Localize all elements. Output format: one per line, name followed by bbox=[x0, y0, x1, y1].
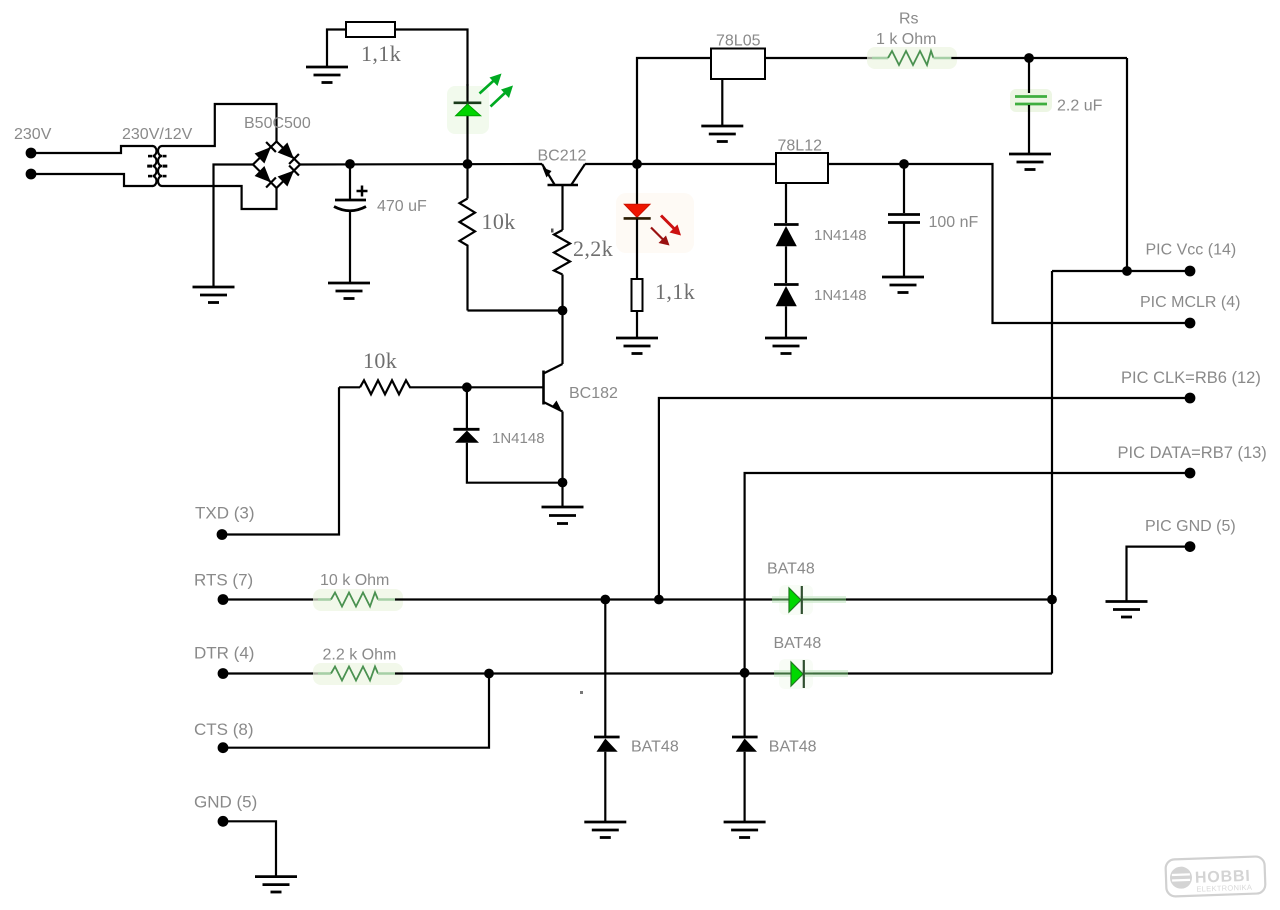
wire secondary top to bridge AC1 bbox=[162, 104, 277, 146]
wire 10k bottom to 2.2k bottom bbox=[468, 309, 563, 311]
regulator U1 78L05 box bbox=[711, 49, 765, 80]
transformer TR1 primary winding bbox=[147, 146, 156, 186]
node junction RTS/BAT48 bbox=[600, 595, 610, 605]
svg-text:PIC GND (5): PIC GND (5) bbox=[1145, 518, 1236, 535]
resistor R6 value label bbox=[320, 572, 389, 589]
node junction DTR/CTS bbox=[484, 669, 494, 679]
resistor R2 value 10k bbox=[482, 209, 516, 234]
resistor R4 10k horizontal (TXD) bbox=[339, 380, 412, 394]
LED green glow bbox=[447, 86, 489, 134]
svg-text:10k: 10k bbox=[482, 209, 516, 234]
svg-text:Rs: Rs bbox=[899, 11, 919, 28]
bridge diode bottom-left bbox=[255, 166, 276, 188]
resistor R6 10 k Ohm green bbox=[318, 593, 395, 607]
transistor Q2 BC182 bbox=[544, 364, 563, 483]
node junction 2.2uF bbox=[1024, 53, 1034, 63]
svg-text:78L12: 78L12 bbox=[778, 138, 823, 155]
resistor Rs value label bbox=[876, 31, 936, 48]
svg-text:2.2 uF: 2.2 uF bbox=[1057, 98, 1103, 115]
ground below D9 bbox=[724, 822, 766, 838]
wire node to 78L05 input bbox=[637, 58, 711, 164]
ground below 470uF bbox=[328, 283, 370, 299]
node junction 100nF bbox=[899, 159, 909, 169]
svg-text:PIC DATA=RB7 (13): PIC DATA=RB7 (13) bbox=[1118, 444, 1267, 462]
node junction DTR/DATA bbox=[740, 668, 750, 678]
svg-text:230V/12V: 230V/12V bbox=[122, 126, 193, 143]
capacitor C3 100 nF bbox=[888, 164, 920, 276]
LED D3 light arrows red bbox=[651, 216, 681, 246]
node RTS label bbox=[194, 571, 253, 590]
transistor Q1 BC212 label bbox=[538, 148, 587, 165]
wire TXD to resistor bbox=[224, 387, 339, 534]
ground below 78L05 bbox=[701, 126, 743, 142]
diode D2 1N4148 at base bbox=[453, 387, 562, 482]
logo hobbielektronika badge bbox=[1165, 856, 1265, 896]
wire Vcc vertical to RTS/DTR bbox=[1051, 271, 1053, 674]
resistor R2 10k vertical bbox=[460, 164, 476, 311]
diode D7 BAT48 black vertical bbox=[594, 600, 620, 822]
resistor Rs label bbox=[899, 11, 919, 28]
terminal 230V line 1 bbox=[26, 148, 37, 159]
wire PIC CLK line to RTS bbox=[659, 398, 1186, 600]
wire RTS line left bbox=[225, 598, 318, 600]
diode D5 label 1N4148 bbox=[814, 287, 867, 304]
diode D4 1N4148 bbox=[774, 225, 799, 284]
diode D9 label BAT48 bbox=[769, 739, 817, 756]
svg-text:PIC Vcc (14): PIC Vcc (14) bbox=[1146, 242, 1237, 259]
svg-text:B50C500: B50C500 bbox=[244, 115, 311, 132]
node DTR label bbox=[194, 644, 254, 663]
LED D1 green bbox=[454, 84, 482, 164]
regulator U2 78L12 label bbox=[778, 138, 823, 155]
svg-text:BAT48: BAT48 bbox=[767, 561, 815, 578]
node 230V label bbox=[14, 126, 52, 143]
diode D6 BAT48 green glow bbox=[779, 585, 813, 615]
terminal GND (5) bbox=[218, 816, 229, 827]
wire CTS to DTR line bbox=[225, 674, 489, 748]
svg-text:2.2 k Ohm: 2.2 k Ohm bbox=[323, 647, 397, 664]
resistor R5 value 1,1k bbox=[655, 279, 695, 304]
wire GND to ground bbox=[225, 821, 276, 875]
bridge diode top-right bbox=[278, 143, 299, 165]
node junction RTS/CLK bbox=[654, 595, 664, 605]
bridge rectifier B50C500 label bbox=[244, 115, 311, 132]
ground below BC182 bbox=[542, 507, 584, 524]
node junction Vcc line bbox=[1122, 266, 1132, 276]
resistor R7 2.2 k Ohm green bbox=[318, 667, 395, 681]
wire PIC DATA line to DTR bbox=[745, 473, 1186, 673]
terminal RTS (7) bbox=[218, 594, 229, 605]
svg-text:1 k Ohm: 1 k Ohm bbox=[876, 31, 936, 48]
regulator U2 78L12 box bbox=[776, 153, 828, 183]
capacitor C2 value label bbox=[1057, 98, 1103, 115]
node PIC MCLR label bbox=[1140, 294, 1240, 311]
diode D4 label 1N4148 bbox=[814, 227, 867, 244]
svg-text:TXD (3): TXD (3) bbox=[195, 504, 255, 523]
resistor R3 2,2k vertical bbox=[554, 230, 570, 311]
resistor R7 glow bbox=[313, 663, 403, 685]
svg-text:1,1k: 1,1k bbox=[655, 279, 695, 304]
ground below R1 bbox=[306, 67, 348, 83]
wire 78L12 stub to diodes bbox=[785, 183, 787, 223]
svg-text:78L05: 78L05 bbox=[716, 33, 761, 50]
wire RTS line right bbox=[395, 598, 1052, 600]
diode D9 BAT48 black vertical bbox=[732, 673, 758, 821]
diode D8 label BAT48 bbox=[774, 635, 822, 652]
node junction emitter/1N4148 bbox=[558, 478, 568, 488]
wire 78L05 output to Rs bbox=[765, 57, 872, 59]
ground below GND (5) bbox=[255, 877, 297, 892]
svg-text:2,2k: 2,2k bbox=[573, 236, 613, 261]
transformer TR1 secondary winding bbox=[158, 146, 167, 186]
resistor R1 value 1,1k bbox=[361, 41, 401, 66]
terminal PIC DATA (13) bbox=[1185, 468, 1196, 479]
wire 78L12 to 100nF node bbox=[828, 164, 1186, 323]
ground below 100nF bbox=[882, 277, 924, 293]
ground below PIC GND bbox=[1106, 602, 1148, 618]
wire Rs to 2.2uF node bbox=[951, 57, 1127, 59]
svg-text:10 k Ohm: 10 k Ohm bbox=[320, 572, 389, 589]
terminal PIC MCLR (4) bbox=[1185, 318, 1196, 329]
wire DTR line right bbox=[395, 672, 1052, 674]
svg-text:CTS (8): CTS (8) bbox=[194, 720, 254, 739]
wire DC plus rail from bridge bbox=[300, 163, 542, 166]
node junction base/1N4148 bbox=[462, 382, 472, 392]
diode D8 BAT48 green bbox=[774, 660, 848, 688]
svg-text:100 nF: 100 nF bbox=[929, 214, 979, 231]
tick mark artifact near 2,2k bbox=[551, 229, 554, 233]
node junction 10k/2.2k bbox=[558, 306, 568, 316]
wire secondary bottom to bridge AC2 bbox=[162, 186, 277, 209]
terminal PIC GND (5) bbox=[1185, 541, 1196, 552]
bridge diode top-left bbox=[255, 142, 276, 164]
wire Vcc feed down from Rs line bbox=[1126, 58, 1128, 271]
resistor Rs glow bbox=[867, 47, 957, 69]
wire PIC GND to ground bbox=[1127, 547, 1187, 601]
node PIC CLK label bbox=[1121, 369, 1261, 387]
capacitor C1 470 uF plus sign bbox=[357, 186, 368, 197]
LED D3 red bbox=[624, 164, 651, 279]
capacitor C2 2.2 uF glow bbox=[1010, 89, 1052, 112]
wire 78L05 ground stub bbox=[721, 79, 723, 125]
node PIC GND label bbox=[1145, 518, 1236, 535]
svg-text:1,1k: 1,1k bbox=[361, 41, 401, 66]
resistor R1 1,1k box top-left bbox=[327, 22, 468, 98]
transistor Q2 BC182 label bbox=[569, 385, 618, 402]
ground below bridge bbox=[193, 287, 235, 303]
terminal PIC CLK (12) bbox=[1185, 393, 1196, 404]
resistor Rs 1 k Ohm green bbox=[872, 51, 951, 65]
node PIC DATA label bbox=[1118, 444, 1267, 462]
terminal DTR (4) bbox=[218, 668, 229, 679]
svg-text:1N4148: 1N4148 bbox=[814, 227, 867, 244]
node CTS label bbox=[194, 720, 254, 739]
stray dot artifact bbox=[580, 691, 583, 694]
svg-text:GND (5): GND (5) bbox=[194, 793, 257, 812]
diode D5 1N4148 bbox=[774, 285, 799, 338]
resistor R5 1,1k vertical box bbox=[632, 279, 643, 337]
resistor R7 value label bbox=[323, 647, 397, 664]
resistor R6 glow bbox=[313, 589, 403, 611]
wire base line bbox=[412, 386, 544, 388]
wire mains top to transformer primary bbox=[33, 146, 153, 153]
svg-text:BAT48: BAT48 bbox=[631, 739, 679, 756]
svg-text:230V: 230V bbox=[14, 126, 52, 143]
svg-text:10k: 10k bbox=[363, 348, 397, 373]
ground below 2.2uF bbox=[1009, 154, 1051, 170]
node junction red LED / 78L05 bbox=[632, 159, 642, 169]
svg-text:DTR (4): DTR (4) bbox=[194, 644, 254, 663]
resistor R3 value 2,2k bbox=[573, 236, 613, 261]
svg-text:BC182: BC182 bbox=[569, 385, 618, 402]
svg-text:BC212: BC212 bbox=[538, 148, 587, 165]
node junction LED/10k bbox=[463, 159, 473, 169]
svg-text:PIC CLK=RB6 (12): PIC CLK=RB6 (12) bbox=[1121, 369, 1261, 387]
wire PIC Vcc line bbox=[1052, 270, 1186, 272]
node GND label bbox=[194, 793, 257, 812]
capacitor C2 2.2 uF green bbox=[1015, 58, 1047, 153]
diode D7 label BAT48 bbox=[631, 739, 679, 756]
svg-text:1N4148: 1N4148 bbox=[492, 430, 545, 447]
bridge diode bottom-right bbox=[278, 166, 299, 187]
regulator U1 78L05 label bbox=[716, 33, 761, 50]
terminal CTS (8) bbox=[218, 742, 229, 753]
svg-text:BAT48: BAT48 bbox=[774, 635, 822, 652]
wire rail to 78L12 bbox=[585, 163, 776, 165]
ground below D7 bbox=[584, 822, 626, 838]
capacitor C3 value label bbox=[929, 214, 979, 231]
node junction 470uF bbox=[345, 159, 355, 169]
wire mains bottom to transformer primary bbox=[33, 174, 153, 186]
LED D3 red glow bbox=[616, 193, 694, 253]
wire emitter node to ground bbox=[561, 483, 563, 507]
ground below red LED resistor bbox=[616, 338, 658, 354]
terminal TXD (3) bbox=[217, 529, 228, 540]
bridge rectifier B50C500 diamond bbox=[253, 142, 300, 189]
wire 2.2k node down to BC182 collector bbox=[561, 311, 563, 365]
svg-text:RTS (7): RTS (7) bbox=[194, 571, 253, 590]
capacitor C1 value label bbox=[377, 198, 427, 215]
ground below 1N4148 pair bbox=[765, 338, 807, 354]
transistor Q1 BC212 bbox=[542, 164, 585, 230]
terminal PIC Vcc (14) bbox=[1185, 266, 1196, 277]
diode D8 BAT48 green glow bbox=[779, 659, 813, 689]
svg-text:BAT48: BAT48 bbox=[769, 739, 817, 756]
resistor R4 value 10k bbox=[363, 348, 397, 373]
diode D6 BAT48 green bbox=[772, 586, 846, 614]
node TXD label bbox=[195, 504, 255, 523]
svg-text:PIC MCLR (4): PIC MCLR (4) bbox=[1140, 294, 1240, 311]
diode D6 label BAT48 bbox=[767, 561, 815, 578]
svg-text:470 uF: 470 uF bbox=[377, 198, 427, 215]
transformer TR1 230V/12V label bbox=[122, 126, 193, 143]
diode D2 label 1N4148 bbox=[492, 430, 545, 447]
svg-text:1N4148: 1N4148 bbox=[814, 287, 867, 304]
capacitor C1 470 uF bbox=[334, 164, 366, 282]
wire DTR line left bbox=[225, 672, 318, 674]
LED D1 light arrows green bbox=[480, 74, 514, 107]
node junction RTS/Vcc vertical bbox=[1047, 595, 1057, 605]
terminal 230V line 2 bbox=[26, 169, 37, 180]
node PIC Vcc label bbox=[1146, 242, 1237, 259]
wire bridge minus to ground bbox=[214, 165, 254, 287]
